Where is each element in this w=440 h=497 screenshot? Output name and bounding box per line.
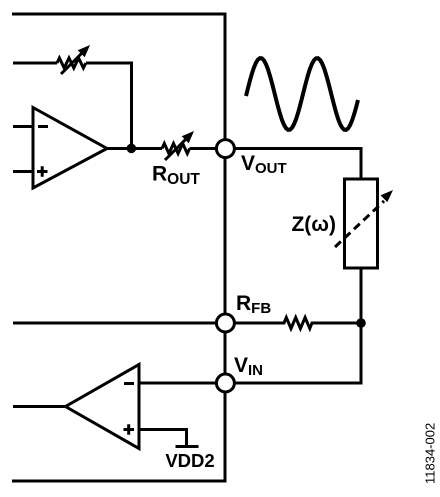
wire (A1 output to R_OUT) (107, 147, 162, 150)
resistor R_FB (external) (235, 318, 362, 329)
plus sign (A1 non-inverting input) (37, 166, 48, 177)
junction (A1 output / feedback tap) (127, 144, 137, 154)
op-amp A1 (top, output buffer) (33, 108, 107, 189)
wire (V_IN pin to A2 inverting input) (139, 382, 216, 385)
svg-text:11834-002: 11834-002 (423, 423, 438, 484)
junction (R_FB / Z(w) node) (356, 318, 366, 328)
wire (A1 non-inverting input stub) (13, 170, 33, 173)
pin V_IN (open circle) (216, 374, 234, 392)
dashed arrow (Z(w) variability) (335, 190, 393, 247)
wire (A2 non-inverting input to VDD2 rail) (139, 430, 187, 446)
sine wave (output signal) (246, 58, 358, 130)
wire (R_OUT to V_OUT pin) (190, 147, 217, 150)
wire (A2 output stub) (13, 405, 66, 408)
svg-text:VDD2: VDD2 (165, 450, 214, 471)
wire (R_FB pin left stub) (13, 322, 216, 325)
impedance Z(w) (variable, box body) (345, 179, 378, 268)
svg-text:Z(ω): Z(ω) (291, 213, 336, 236)
pin V_OUT (open circle) (216, 140, 234, 158)
wire (variable resistor output down to op-amp output node) (86, 63, 132, 149)
minus sign (A2 inverting input) (124, 382, 134, 385)
plus sign (A2 non-inverting input) (124, 424, 135, 435)
pin R_FB (open circle) (216, 314, 234, 332)
op-amp A2 (bottom, input amplifier) (66, 365, 140, 449)
wire (Z(w) bottom to feedback junction) (360, 268, 363, 323)
wire (V_OUT pin to Z(w) top) (235, 149, 362, 180)
chip boundary (top, right, bottom edges; V_OUT/R_FB/V_IN pin rail on right) (12, 14, 225, 481)
VDD2 rail symbol (bar) (176, 445, 199, 448)
minus sign (A1 inverting input) (38, 125, 48, 128)
wire (junction down and left to V_IN pin) (235, 323, 362, 383)
variable resistor (top feedback) (57, 45, 90, 74)
resistor R_OUT (variable) (162, 131, 194, 160)
wire (top feedback branch into variable resistor) (13, 62, 57, 65)
wire (A1 inverting input stub) (13, 125, 33, 128)
